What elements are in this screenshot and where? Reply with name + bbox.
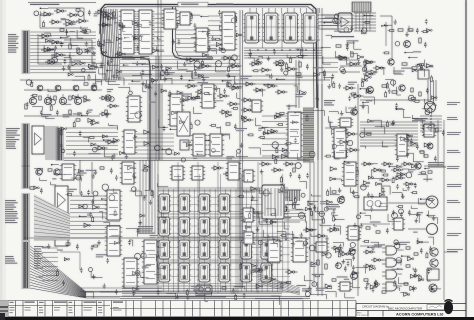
ULA label: [332, 36, 354, 37]
wire bundle: [262, 116, 288, 156]
wire: [239, 180, 241, 240]
resistor R: [398, 29, 403, 31]
gate IC31: [39, 34, 52, 38]
note text above table right: [142, 296, 226, 297]
wire: [86, 297, 120, 299]
svg-text:CIRCUIT DIAGRAM for: CIRCUIT DIAGRAM for: [362, 304, 389, 308]
conn tube: [22, 194, 31, 240]
cluster bus drivers: [34, 164, 118, 197]
IC: [208, 134, 224, 156]
caps row region H: [406, 153, 409, 155]
wire: [317, 84, 319, 160]
transistor: [427, 143, 433, 149]
wire: [444, 251, 458, 253]
cluster cassette analogue: [26, 80, 130, 123]
RAM col wire: [197, 162, 199, 293]
small parts top-left: [76, 9, 80, 11]
RAM col wire: [257, 162, 259, 293]
ladder dots: [420, 115, 442, 132]
transistor Qa3: [73, 85, 79, 91]
IC: [266, 240, 282, 262]
transistor Q4: [74, 97, 81, 104]
IC54 ROM: [302, 13, 319, 43]
cluster serial gates top-left: [34, 8, 123, 39]
cluster right mid: [324, 161, 369, 241]
wire: [360, 245, 382, 247]
horizontal trunk wires: [80, 288, 162, 291]
cluster serial lower: [323, 51, 371, 86]
IC61 RAM: [157, 240, 171, 259]
cluster video processor: [125, 81, 248, 162]
tram wires: [428, 80, 436, 101]
keyboard link parts: [69, 44, 71, 49]
IC: [342, 162, 358, 186]
IC: [178, 12, 192, 25]
RAM labels: [138, 226, 155, 234]
bus note text: [216, 3, 233, 4]
IC: [105, 190, 122, 220]
label text: [428, 162, 446, 168]
horizontal trunk wires: [100, 291, 300, 293]
transistor: [430, 259, 438, 267]
serial ULA IC6: [338, 13, 352, 32]
bus label text: [181, 4, 199, 5]
conn video out: [22, 242, 31, 288]
IC: [119, 10, 136, 54]
IC: [242, 170, 255, 182]
acorn logo: [444, 301, 453, 314]
wire: [38, 34, 62, 64]
label text: [140, 56, 150, 59]
ribbon hatch: [303, 108, 314, 162]
transistor Q video: [404, 41, 411, 48]
transistor Qa2: [55, 85, 61, 91]
cluster modulator area: [365, 163, 438, 245]
right border frame line: [465, 0, 467, 317]
AND gate 1: [382, 246, 402, 255]
junctions: [249, 49, 314, 50]
RAM col wire: [177, 162, 179, 293]
bus branch: [173, 7, 213, 59]
vertical trunk wires: [240, 10, 243, 288]
IC: [190, 166, 205, 180]
parts right edge: [436, 128, 438, 132]
IC: [338, 282, 352, 291]
wire: [62, 94, 64, 97]
bus label MODEL A/B ONLY: [178, 2, 208, 7]
top left note: [30, 4, 59, 5]
IC63 RAM: [197, 240, 211, 259]
right G parts: [343, 86, 356, 90]
wire: [160, 0, 162, 80]
fan lines I: [34, 196, 70, 240]
wire bundle: [140, 160, 158, 234]
IC: [422, 124, 436, 137]
transistor: [349, 249, 355, 255]
vertical trunk wires: [443, 120, 445, 300]
wire bundle: [122, 286, 282, 296]
wire: [157, 0, 159, 80]
label leads: [42, 248, 58, 280]
modulator box: [364, 197, 387, 210]
power reg parts: [84, 83, 88, 85]
wire bundle: [120, 56, 240, 74]
gates right F: [217, 94, 230, 98]
wire bundle: [354, 13, 376, 31]
wire bundle: [176, 30, 196, 52]
transistor Q3: [59, 97, 66, 104]
rail2: [24, 115, 100, 117]
svg-text:BBC MICROCOMPUTER: BBC MICROCOMPUTER: [388, 307, 423, 311]
transistor Q1: [29, 97, 36, 104]
vertical trunk wires: [357, 84, 359, 296]
AND gate 4: [382, 282, 402, 291]
bus drop bundle: [100, 9, 120, 80]
wire: [47, 94, 49, 97]
wire: [86, 291, 118, 293]
cluster kb wiring: [60, 121, 125, 161]
IC: [226, 162, 241, 180]
IC57 RAM: [157, 217, 171, 236]
horizontal trunk wires: [128, 83, 300, 85]
crystal box: [177, 112, 190, 136]
wire bundle: [322, 15, 354, 29]
pin labels kb: [6, 128, 20, 149]
wire: [402, 249, 404, 251]
gates K top: [259, 162, 272, 166]
IC65 RAM: [157, 263, 171, 282]
transistor: [399, 85, 405, 91]
cluster below CPU: [123, 55, 238, 88]
gates under ROMs: [249, 62, 262, 66]
wire: [77, 94, 79, 97]
IC: [338, 118, 353, 127]
IC: [291, 238, 308, 262]
IC: [168, 94, 184, 126]
wire bundle: [158, 237, 280, 240]
parts table: [0, 301, 356, 317]
transistor: [429, 284, 437, 292]
IC: [220, 12, 237, 50]
IC RAM x4: [259, 263, 273, 282]
cluster under ROMs: [240, 47, 331, 80]
ROM top drops: [250, 8, 319, 13]
IC: [191, 134, 207, 156]
IC: [332, 128, 348, 158]
cluster ula area: [237, 163, 331, 241]
horizontal trunk wires: [64, 158, 310, 161]
cluster K pocket2: [283, 201, 344, 248]
horizontal trunk wires: [120, 75, 318, 77]
transistor: [351, 273, 358, 280]
note text O: [255, 298, 303, 299]
cluster lower A: [64, 58, 124, 86]
wire bundle: [136, 134, 174, 154]
IC64 RAM: [217, 240, 231, 259]
IC51 ROM: [243, 13, 260, 43]
link block hatch: [353, 2, 371, 12]
transistor: [388, 59, 394, 65]
IC: [395, 134, 409, 156]
link block: [352, 2, 371, 12]
cluster sparse top-right: [381, 19, 432, 46]
IC59 RAM: [197, 217, 211, 236]
transistor: [367, 87, 374, 94]
scan edge shading left: [0, 0, 6, 300]
wire: [321, 84, 323, 160]
IC: [120, 162, 136, 184]
wire bundle: [134, 14, 139, 50]
connector pin labels: [8, 34, 19, 53]
wire: [340, 59, 360, 61]
horizontal trunk wires: [24, 237, 310, 239]
IC: [170, 166, 185, 180]
kb row wires: [30, 32, 96, 73]
IC: [314, 242, 329, 252]
wire bundle: [70, 196, 120, 238]
cluster video out: [36, 240, 119, 298]
IC: [137, 10, 154, 54]
wire: [313, 162, 315, 286]
lower cluster region D: [363, 60, 376, 64]
cluster power: [309, 242, 365, 298]
IC55 RAM: [197, 194, 211, 213]
IC60 RAM: [217, 217, 231, 236]
transistor Q2: [44, 97, 51, 104]
cluster sound: [361, 80, 437, 126]
transistor: [54, 169, 60, 175]
table left dark cell: [0, 301, 8, 317]
wire: [408, 228, 426, 230]
AND gate 3: [382, 270, 402, 279]
transistor: [430, 248, 438, 256]
parts P mid: [406, 247, 410, 249]
buffer ICs I: [55, 186, 68, 214]
bottom bar left notch: [0, 313, 5, 320]
wire: [79, 160, 81, 194]
wire bundle: [148, 84, 162, 160]
wire bundle: [158, 214, 288, 217]
cluster psu right: [363, 240, 441, 296]
transistor: [415, 163, 421, 169]
transistor Qa4: [91, 85, 97, 91]
connector PL13: [22, 31, 31, 73]
cluster video top-right: [362, 51, 434, 87]
IC56 RAM: [217, 194, 231, 213]
wire bundle: [318, 15, 338, 29]
wire: [360, 223, 390, 225]
wire bundle: [284, 210, 306, 220]
transistor: [338, 197, 345, 204]
wire: [40, 14, 88, 28]
top bits M: [66, 243, 70, 245]
wire: [360, 99, 430, 101]
gate cluster F: [185, 84, 198, 88]
title block frame: [356, 304, 466, 317]
wire bundle: [66, 128, 118, 154]
conn bus: [22, 166, 31, 188]
wire: [120, 298, 310, 300]
cluster cassette logic: [44, 33, 113, 71]
IC: [194, 28, 210, 52]
cluster under ram grid: [167, 286, 245, 302]
RAM col wire: [217, 162, 219, 293]
wire: [380, 16, 392, 60]
IC: [242, 232, 255, 244]
gates top J: [211, 166, 224, 170]
gate cluster IC30: [41, 12, 54, 16]
IC74 buffer w/ triangle: [32, 126, 44, 154]
box P: [427, 269, 439, 280]
labels right of conn: [34, 246, 43, 269]
IC: [60, 164, 76, 180]
resistor pack: [285, 190, 301, 201]
cluster CPU area: [119, 10, 242, 57]
wire: [424, 165, 444, 167]
caps row L: [392, 211, 395, 213]
tube pin labels: [5, 200, 18, 223]
wire: [437, 120, 439, 166]
IC: [346, 226, 361, 240]
cluster A-right wires: [98, 37, 126, 85]
cluster serial bottom: [128, 240, 164, 297]
wire: [64, 40, 92, 70]
video ULA IC: [262, 185, 284, 219]
left P gates: [363, 250, 375, 254]
cluster serial area: [324, 14, 374, 49]
label text: [286, 204, 300, 205]
IC: [392, 218, 405, 230]
ULA coil bars: [265, 188, 271, 216]
IC58 RAM: [177, 217, 191, 236]
RAM mesh vertical: [158, 174, 288, 292]
wire: [385, 22, 387, 46]
gates over bus drop: [95, 10, 107, 14]
cluster tube wiring: [79, 195, 119, 243]
label text: [412, 118, 427, 121]
AND gate 2: [382, 258, 402, 267]
wire: [60, 252, 80, 270]
wire bundle: [356, 13, 370, 31]
IC: [105, 226, 122, 256]
ROM interlinks: [244, 13, 320, 48]
label text: [122, 56, 135, 59]
transistor: [36, 169, 42, 175]
transistor Qa1: [37, 85, 43, 91]
IC62 RAM: [177, 240, 191, 259]
bottom L parts: [366, 227, 370, 229]
cluster K pocket: [242, 188, 305, 247]
IC RAM x2: [259, 240, 273, 259]
connector aux: [56, 128, 65, 160]
gates center top: [243, 82, 256, 86]
IC66 RAM: [177, 263, 191, 282]
cluster dac: [365, 120, 432, 162]
cluster mid gap: [160, 61, 242, 98]
fan M: [30, 246, 86, 298]
IC68 RAM: [217, 263, 231, 282]
fan O: [258, 274, 300, 295]
bus rail: [100, 5, 317, 109]
bus rail inner: [103, 7, 314, 108]
signature box: [427, 305, 446, 310]
wire bundle: [360, 122, 418, 146]
transistor: [351, 109, 357, 115]
IC serial proc: [142, 240, 159, 284]
wire: [70, 52, 96, 72]
connector kb: [22, 124, 31, 166]
cluster ram drivers: [126, 165, 168, 238]
wire bundle: [208, 16, 222, 50]
wire: [340, 65, 362, 67]
dark data ribbon: [303, 108, 314, 162]
gates O: [253, 268, 266, 272]
wire: [32, 94, 34, 97]
rail: [24, 89, 102, 91]
vertical trunk wires: [318, 8, 322, 296]
wire: [78, 296, 310, 298]
wire bundle: [158, 188, 288, 191]
IC: [200, 84, 216, 108]
wire bundle: [322, 58, 338, 72]
margin reference notes: [447, 102, 460, 105]
IC: [241, 208, 255, 222]
grey fan ribbon: [34, 194, 70, 240]
IC53 RAM: [157, 194, 171, 213]
bottom black bar: [0, 317, 474, 320]
svg-text:TTL/XXX-C: TTL/XXX-C: [357, 315, 369, 317]
cluster right logic: [324, 80, 372, 159]
IC: [126, 96, 142, 122]
wire: [309, 162, 311, 290]
ULA coil bars2: [275, 188, 281, 216]
wire: [258, 221, 300, 223]
IC67 RAM: [197, 263, 211, 282]
cluster center logic: [240, 84, 325, 163]
wire bundle: [152, 14, 164, 50]
wire bundle: [46, 126, 58, 160]
label text: [326, 204, 340, 210]
bus branch inner: [176, 7, 213, 57]
transistor: [105, 95, 111, 101]
crystal oscillator circle: [425, 102, 436, 113]
horizontal trunk wires: [20, 79, 330, 81]
wire: [48, 8, 84, 20]
RAM col wire: [237, 162, 239, 293]
wire bundle: [244, 48, 322, 58]
IC RAM x1: [239, 240, 253, 259]
IC: [122, 130, 137, 154]
wire: [91, 162, 93, 194]
IC RAM x3: [239, 263, 253, 282]
vertical trunk wires: [296, 60, 299, 108]
wire: [340, 71, 360, 73]
RAM mesh horizontal: [158, 190, 290, 284]
cluster bottom center: [240, 262, 327, 305]
gates right of transistor row: [99, 96, 111, 100]
label text: [324, 100, 335, 106]
IC52 ROM: [263, 13, 280, 43]
parts below ULA: [336, 45, 341, 47]
vertical trunk wires: [156, 56, 159, 160]
IC: [162, 9, 178, 29]
IC: [122, 258, 139, 288]
svg-text:ACORN COMPUTERS Ltd: ACORN COMPUTERS Ltd: [396, 312, 444, 317]
wire bundle: [158, 260, 280, 263]
gate rows L: [361, 162, 373, 166]
cluster L gates extra: [361, 169, 427, 199]
bus ring left: [101, 34, 150, 190]
